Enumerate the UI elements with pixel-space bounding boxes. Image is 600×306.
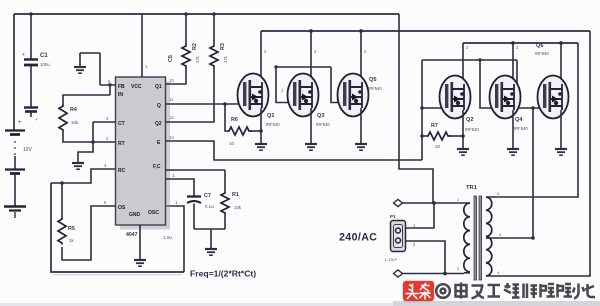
node: R6 tap on gate wire (223, 102, 227, 106)
wire: +12V top rail (14, 13, 399, 15)
resistor R5 (58, 183, 115, 260)
wire: top rail drop on right to connector feed (399, 14, 433, 203)
capacitor C2 (24, 108, 38, 123)
wire: drain rail right drop to transformer top (496, 43, 578, 197)
watermark char 头 (406, 284, 419, 300)
wire: feedback loop left vertical and bottom run (51, 183, 184, 272)
ground: Q5 source ground (355, 144, 367, 150)
wire: right bank gate bus (422, 59, 517, 61)
connector P1 240V AC (385, 203, 445, 274)
wire: Q2 drain drop (462, 43, 464, 84)
transistor Q5 (338, 74, 383, 144)
node: junction of capacitor branch on top rail (29, 12, 33, 16)
wire: AC output bottom run (398, 273, 464, 275)
bottom edge tint (0, 303, 600, 306)
resistor R6 (225, 104, 263, 146)
resistor R2 (166, 12, 200, 84)
wire: Q5 gate drop (331, 67, 340, 103)
wire: left bank gate bus (276, 66, 331, 68)
pin number ticks (104, 45, 519, 247)
wire: left bank drain rail (261, 30, 590, 32)
wire: battery positive riser (13, 14, 15, 130)
transistor Q3 (288, 74, 331, 144)
node: connector pin1 junction (432, 201, 436, 205)
capacitor C1 (22, 52, 50, 67)
watermark badge 头条 (403, 281, 434, 301)
wire: Q4 gate drop (480, 60, 492, 108)
transistor Q2 (440, 76, 480, 149)
node: output diamond bottom (394, 270, 403, 277)
ground: decoupling ground near pin FB (74, 53, 115, 85)
wire: Q6 drain drop (560, 43, 562, 84)
transistor Q4 (490, 76, 529, 149)
capacitor C7 (166, 179, 214, 229)
ground: Q2 source ground (457, 149, 469, 155)
wire: Q1 drain drop (260, 31, 262, 82)
wire: Q5 drain drop (360, 31, 362, 82)
ground: Q1 source ground (255, 144, 267, 150)
node: R4 bottom junction (91, 140, 95, 144)
wire: Q3 gate drop (276, 67, 290, 103)
wire: Q3 drain drop (310, 31, 312, 82)
op-amp U1 (oscillator IC CD4047) (116, 77, 171, 238)
wire: IC pin to R4 bottom node (93, 122, 115, 142)
watermark text @电子工程师助理小七 dark pass (436, 283, 595, 299)
watermark text outline pass (436, 283, 595, 299)
transformer TR1 (457, 185, 502, 280)
battery B1 12V (4, 120, 33, 218)
wire: Q4 drain drop (512, 43, 514, 84)
wire: IC RC pin to timing network (166, 169, 225, 171)
ground: timing ground below R4 node (72, 142, 93, 169)
wire: Q6 gate drop and centre tap riser (517, 60, 540, 108)
wire: AC output top run (398, 202, 464, 204)
wire: IC left pin to feedback loop (51, 169, 115, 183)
ground: timing network ground (205, 229, 217, 255)
wire: VCC supply drop to IC (141, 14, 143, 77)
resistor R1 (221, 170, 242, 229)
wire: IC second output run to right bank (166, 141, 422, 160)
wire: Q2 gate stub (422, 107, 442, 109)
resistor R4 (59, 83, 115, 142)
watermark char 条 (420, 283, 431, 300)
wire: Q2 gate riser from IC output (421, 60, 423, 160)
transistor Q1 (238, 74, 281, 144)
node: R5 top junction (60, 181, 64, 185)
resistor R7 (422, 123, 465, 149)
node: Q4 drain junction (511, 41, 515, 45)
wire: timing network ground link (194, 228, 225, 230)
resistor R3 (166, 12, 228, 122)
ground: IC ground pin (134, 225, 146, 266)
wire: left bank rail drop to transformer bottom (496, 31, 590, 276)
ground: Q3 source ground (305, 144, 317, 150)
ground: Q6 source ground (555, 149, 567, 155)
wire: centre tap (487, 237, 533, 239)
wire: capacitor branch vertical (30, 14, 32, 117)
node: output diamond top (394, 199, 403, 206)
wire: feedback loop riser to IC right pin (166, 206, 184, 272)
node: Q5 drain junction (359, 29, 363, 33)
wire: right bank drain rail (463, 42, 578, 44)
transistor Q6 (535, 43, 569, 148)
ground: Q4 source ground (507, 149, 519, 155)
node: Q3 drain junction (309, 29, 313, 33)
wire: IC output to left bank gates (166, 103, 238, 105)
node: Q6 drain junction (559, 41, 563, 45)
